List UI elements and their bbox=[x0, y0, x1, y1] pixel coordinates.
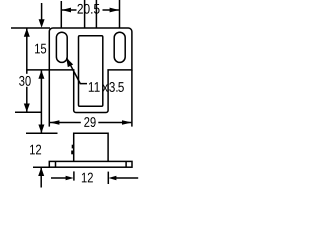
dimension text 12 left bbox=[30, 145, 41, 155]
arrowhead 29 right bbox=[122, 120, 132, 125]
front view switch body box bbox=[74, 133, 108, 161]
front view base plate bbox=[49, 161, 132, 167]
arrowhead 12 left bottom (up) bbox=[38, 168, 44, 177]
extension line 29 right bbox=[131, 70, 133, 127]
extension line 29 left bbox=[48, 70, 50, 127]
mounting slot left 11x3.5 bbox=[56, 32, 67, 62]
part outline top view bbox=[49, 28, 132, 113]
arrowhead 12 bottom rightside (left) bbox=[108, 176, 116, 180]
stem 12 left bottom arrow bbox=[40, 168, 42, 188]
arrowhead 15 bottom (up) bbox=[38, 70, 44, 79]
dimension text 29 bbox=[84, 117, 95, 127]
arrowhead 12 left top (down) bbox=[38, 125, 44, 134]
dimension text 12 bottom bbox=[82, 173, 93, 183]
dimension line 30 bbox=[26, 28, 28, 112]
clip nub upper on box left edge bbox=[72, 145, 74, 149]
dimension line 20.5 bbox=[62, 9, 119, 11]
extension line body bottom (30 dim) bbox=[15, 111, 41, 113]
arrowhead 20.5 left bbox=[62, 8, 71, 13]
arrowhead 29 left bbox=[50, 120, 60, 125]
dimension text 20.5 bbox=[78, 4, 100, 14]
extension line 12 bottom right bbox=[107, 172, 109, 184]
leader arrowhead 11x3.5 bbox=[66, 58, 73, 68]
top view extension line y=28 to left (30 dim top) bbox=[11, 27, 50, 29]
extension line 20.5 right (slot center) bbox=[119, 0, 121, 28]
base plate right tab divider bbox=[125, 161, 127, 167]
extension line cropped dim right bbox=[95, 0, 97, 28]
extension line ears bottom (15 dim) bbox=[28, 69, 50, 71]
extension line cropped dim left bbox=[84, 0, 86, 28]
extension line base bottom left (12 left dim) bbox=[33, 166, 50, 168]
extension line 12 bottom left bbox=[73, 171, 75, 180]
extension line box top (12 left dim) bbox=[26, 132, 58, 134]
dimension text 15 bbox=[35, 44, 46, 54]
arrowhead 30 bottom (down) bbox=[24, 104, 30, 113]
extension line 20.5 left (slot center) bbox=[60, 1, 62, 28]
shared stem 15 bottom / 12 top bbox=[40, 70, 42, 133]
arrowhead 30 top (up) bbox=[24, 28, 30, 37]
dimension text 11x3.5 bbox=[89, 82, 124, 92]
dimension text 30 bbox=[19, 76, 31, 86]
base plate left tab divider bbox=[55, 161, 57, 167]
arrowhead 20.5 right bbox=[110, 8, 119, 13]
dimension line 12 bottom bbox=[51, 177, 138, 179]
mounting slot right 11x3.5 bbox=[114, 32, 125, 62]
leader line 11x3.5 bbox=[67, 58, 87, 84]
arrowhead 12 bottom leftside (right) bbox=[66, 176, 74, 180]
dimension stem 15 top bbox=[41, 3, 43, 21]
clip nub lower on box left edge bbox=[71, 151, 74, 155]
arrowhead 15 top (down) bbox=[39, 19, 45, 28]
dimension line 29 bbox=[50, 122, 131, 124]
inner rectangle (housing) top view bbox=[79, 36, 103, 106]
